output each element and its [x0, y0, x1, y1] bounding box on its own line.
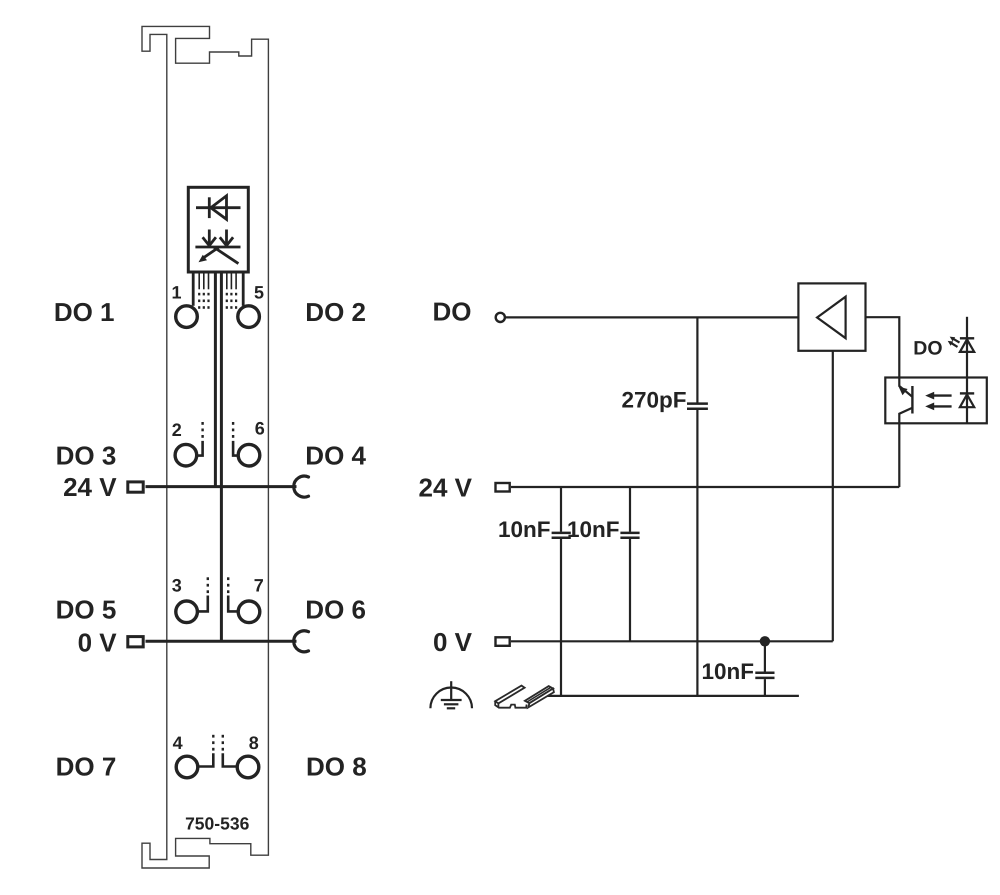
capacitor C2 10nF branch	[629, 487, 631, 532]
LED emission arrow 1	[954, 339, 960, 343]
opto light arrow lower	[934, 405, 952, 407]
0V terminal box right	[496, 637, 510, 646]
wire amp output	[866, 317, 900, 377]
svg-text:10nF: 10nF	[567, 517, 620, 542]
pin 1 lead	[192, 272, 195, 306]
svg-text:8: 8	[249, 733, 259, 753]
svg-text:10nF: 10nF	[701, 659, 754, 684]
terminal 8	[237, 756, 259, 778]
LED box U1	[188, 187, 248, 272]
ground symbol	[430, 681, 472, 708]
svg-text:DO 8: DO 8	[306, 752, 367, 782]
svg-text:DO 2: DO 2	[305, 297, 366, 327]
LED D2 bidirectional symbol in LED box	[195, 230, 240, 264]
24V terminal box right	[496, 483, 510, 492]
DO status LED bar	[960, 337, 974, 339]
op-amp U2 triangle	[817, 297, 846, 339]
LED D2 arrowhead	[199, 255, 208, 263]
terminal 6 hook	[233, 441, 238, 456]
DO status LED line	[966, 317, 968, 378]
phototransistor Q1 emitter	[899, 408, 912, 424]
terminal 6	[238, 444, 260, 466]
jumper contact 0V	[294, 631, 309, 652]
opto light arrow upper	[934, 394, 952, 396]
svg-text:DO 6: DO 6	[305, 595, 366, 625]
terminal 6 dots	[232, 422, 234, 438]
wire 24V rail	[511, 486, 899, 488]
svg-text:DO 1: DO 1	[54, 297, 115, 327]
pin hatch lines	[199, 272, 236, 289]
terminal 4	[176, 756, 198, 778]
terminal 4 dots	[212, 735, 214, 751]
junction dot on 0V rail	[760, 636, 770, 646]
pin 5 lead	[242, 272, 245, 306]
svg-text:7: 7	[254, 575, 264, 595]
terminal 2 dots	[201, 422, 203, 438]
svg-text:DO 7: DO 7	[56, 752, 117, 782]
terminal 7	[238, 601, 260, 623]
svg-text:0 V: 0 V	[433, 627, 473, 657]
svg-text:10nF: 10nF	[498, 517, 551, 542]
svg-text:1: 1	[171, 282, 181, 302]
DO status LED triangle	[960, 339, 974, 352]
terminal 5	[238, 306, 260, 328]
DO input terminal	[496, 313, 505, 322]
svg-text:0 V: 0 V	[78, 628, 118, 658]
svg-text:DO: DO	[433, 297, 472, 327]
terminal 2 hook	[197, 441, 203, 456]
svg-text:24 V: 24 V	[63, 472, 117, 502]
svg-text:6: 6	[255, 419, 265, 439]
terminal 3 dots	[207, 577, 209, 593]
svg-text:270pF: 270pF	[621, 388, 686, 413]
op-amp U2 box	[798, 283, 865, 350]
DIN rail symbol	[495, 686, 554, 708]
capacitor C1 10nF branch	[560, 487, 562, 532]
svg-text:5: 5	[254, 282, 264, 302]
terminal 2	[175, 444, 197, 466]
wire DO to amplifier	[506, 316, 799, 318]
svg-text:DO: DO	[913, 337, 942, 359]
optocoupler U3 box	[885, 378, 987, 424]
capacitor C3 10nF branch	[764, 641, 766, 671]
svg-text:4: 4	[173, 733, 183, 753]
terminal 4 hook	[198, 753, 214, 766]
phototransistor Q1 collector	[899, 378, 912, 397]
module 750-536 outline	[142, 26, 268, 868]
opto LED diode	[966, 378, 968, 424]
diode D1 in LED box	[196, 196, 241, 220]
svg-text:24 V: 24 V	[419, 473, 473, 503]
terminal 3	[176, 601, 198, 623]
terminal 7 dots	[227, 577, 229, 593]
wire shield rail	[543, 695, 799, 697]
0V terminal box left	[128, 637, 143, 647]
wire 0V left	[146, 640, 297, 643]
svg-text:DO 4: DO 4	[305, 441, 366, 471]
phototransistor Q1 collector arrow	[899, 387, 908, 396]
bus line left	[214, 272, 217, 487]
LED emission arrow 2	[952, 343, 958, 347]
svg-text:DO 5: DO 5	[56, 595, 117, 625]
wire 0V rail	[511, 640, 833, 642]
wire 270pF branch upper	[696, 317, 698, 402]
wire amp bottom to 0V	[832, 351, 834, 642]
terminal 8 hook	[223, 753, 238, 766]
wire 270pF branch lower	[696, 410, 698, 696]
capacitor 270pF	[687, 404, 708, 409]
svg-text:DO 3: DO 3	[56, 441, 117, 471]
svg-text:2: 2	[172, 420, 182, 440]
pin hatch dots	[198, 293, 237, 309]
terminal 3 hook	[197, 596, 208, 612]
wire 24V left	[146, 485, 297, 488]
terminal 1	[176, 306, 198, 328]
svg-text:3: 3	[172, 575, 182, 595]
bus line right	[220, 272, 223, 641]
svg-text:750-536: 750-536	[185, 813, 249, 833]
wire opto emitter to 24V	[898, 423, 900, 487]
jumper contact 24V	[294, 476, 309, 497]
terminal 7 hook	[228, 596, 238, 612]
phototransistor Q1 base bar	[911, 386, 913, 414]
terminal 8 dots	[222, 735, 224, 751]
24V terminal box left	[128, 482, 143, 492]
